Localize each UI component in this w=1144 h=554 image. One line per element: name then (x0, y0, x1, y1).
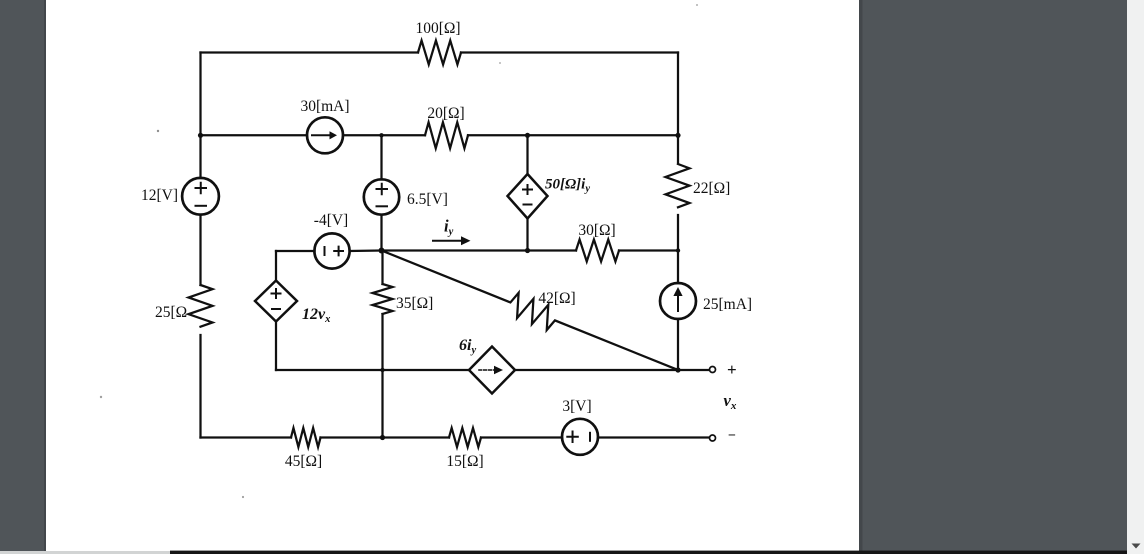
terminal minus (710, 435, 716, 441)
left viewer panel (0, 0, 45, 552)
current source 30mA (307, 117, 343, 153)
scan speck (100, 396, 102, 398)
dependent source 6iy diamond (469, 347, 515, 394)
current source 25mA (660, 283, 696, 319)
resistor 100 ohm (418, 41, 461, 65)
terminal plus (710, 367, 716, 373)
voltage source 6.5V (364, 179, 399, 214)
svg-text:25[Ω: 25[Ω (155, 304, 187, 321)
svg-text:22[Ω]: 22[Ω] (693, 180, 730, 197)
resistor 35 ohm (373, 284, 393, 314)
resistor 30 ohm (576, 240, 619, 262)
bottom scrollbar thumb (170, 551, 1127, 554)
svg-text:25[mA]: 25[mA] (703, 296, 752, 313)
svg-text:6.5[V]: 6.5[V] (407, 191, 448, 208)
svg-text:3[V]: 3[V] (562, 398, 591, 415)
wire rail4 (276, 369, 469, 371)
svg-text:−: − (728, 429, 736, 444)
scan speck (499, 62, 501, 64)
resistor 20 ohm (425, 122, 468, 148)
current arrow iy (433, 240, 462, 242)
wire 6.5V to node (380, 215, 382, 251)
svg-text:50[Ω]iy: 50[Ω]iy (545, 177, 590, 195)
node rail2 x381 (379, 133, 383, 137)
resistor 45 ohm (291, 428, 321, 447)
voltage source 12V (182, 178, 219, 215)
svg-text:-4[V]: -4[V] (314, 212, 348, 229)
svg-text:42[Ω]: 42[Ω] (538, 290, 575, 307)
svg-text:15[Ω]: 15[Ω] (446, 453, 483, 470)
node rail3 x381 (379, 248, 385, 254)
scan speck (157, 130, 159, 132)
wire 22 ohm to 25mA (677, 215, 679, 283)
resistor 25 ohm (189, 285, 213, 327)
wire 25mA to rail4 node (677, 319, 679, 370)
svg-text:12[V]: 12[V] (141, 187, 178, 204)
node rail2 left (198, 133, 203, 138)
wire rail2 (201, 134, 308, 136)
wire 35 ohm lower stub (381, 314, 383, 438)
wire rail4 right (515, 369, 710, 371)
wire dep source to rail3 (526, 219, 528, 251)
svg-text:+: + (727, 360, 737, 379)
svg-text:30[Ω]: 30[Ω] (578, 222, 615, 239)
scrollbar track (1127, 0, 1144, 554)
page right edge shade (859, 0, 863, 551)
svg-text:20[Ω]: 20[Ω] (427, 105, 464, 122)
voltage source 3V (562, 419, 598, 455)
wire 6.5V branch (380, 135, 382, 179)
svg-text:100[Ω]: 100[Ω] (415, 20, 460, 37)
node rail2 right (675, 133, 680, 138)
voltage source -4V (314, 233, 349, 268)
node rail4 x382 (380, 368, 384, 372)
scan speck (696, 4, 698, 6)
wire rail3 (382, 249, 577, 251)
wire to -4V source (276, 250, 315, 252)
right viewer panel (861, 0, 1127, 551)
node rail3 right (676, 248, 680, 252)
node rail5 x382 (380, 435, 385, 440)
svg-text:30[mA]: 30[mA] (300, 98, 349, 115)
wire -4V to node (350, 249, 382, 252)
wire left vertical (199, 53, 201, 179)
resistor 22 ohm (666, 164, 690, 207)
wire 12vx to rail4 (275, 322, 277, 371)
node rail3 x527 (525, 248, 530, 253)
wire down to 12vx diamond (275, 251, 277, 281)
wire right vertical (677, 53, 679, 164)
dependent source 12vx diamond (255, 281, 297, 322)
wire top rail (201, 51, 419, 53)
node rail2 x527 (525, 133, 530, 138)
resistor 42 ohm diagonal (377, 239, 682, 381)
dependent source 50ohm-iy diamond (508, 174, 548, 219)
scan speck (242, 496, 244, 498)
wire 35 ohm upper stub (381, 251, 383, 285)
bottom scroll track (0, 551, 1127, 554)
wire rail5 (201, 436, 292, 438)
resistor 15 ohm (449, 428, 481, 447)
wire dep source branch (526, 135, 528, 174)
svg-text:45[Ω]: 45[Ω] (285, 453, 322, 470)
scrollbar down arrow (1132, 544, 1141, 549)
node rail4 right (675, 367, 680, 372)
svg-text:35[Ω]: 35[Ω] (396, 295, 433, 312)
